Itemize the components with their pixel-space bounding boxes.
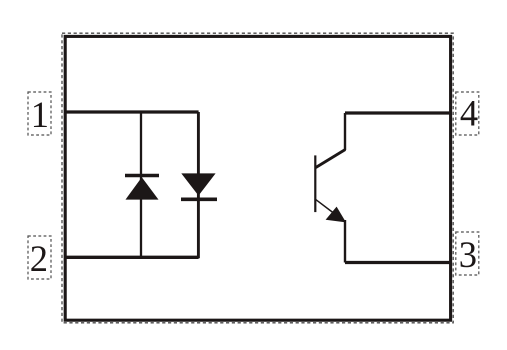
svg-text:2: 2	[30, 238, 48, 279]
svg-text:1: 1	[31, 94, 49, 135]
svg-text:4: 4	[460, 93, 478, 134]
svg-text:3: 3	[459, 234, 477, 275]
